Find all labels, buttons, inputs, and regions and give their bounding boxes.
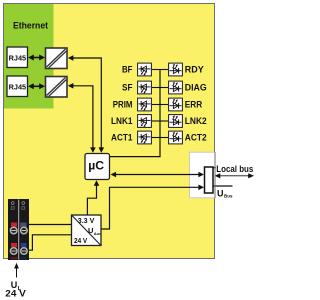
wire terminal to power supply (0V) (29, 235, 71, 250)
label U_Bus (217, 189, 233, 199)
wire LED row ACT1/ACT2 (152, 137, 168, 139)
module body (yellow block) (4, 4, 215, 259)
wire 3.3V from power supply to uC (87, 180, 99, 214)
svg-text:Aux: Aux (94, 231, 102, 236)
svg-text:24 V: 24 V (5, 288, 26, 298)
arrow U_L supply input (14, 263, 19, 278)
label U_L (11, 280, 22, 292)
white panel behind Local bus (190, 152, 216, 198)
svg-text:LNK1: LNK1 (111, 116, 133, 126)
svg-text:BF: BF (122, 65, 133, 75)
LED DIAG (169, 81, 183, 94)
Ethernet section (green block) (4, 4, 54, 109)
svg-text:Local bus: Local bus (216, 164, 253, 174)
Local bus double arrow (215, 173, 255, 178)
local bus interface box (205, 167, 214, 193)
svg-text:RJ45: RJ45 (9, 54, 27, 63)
wire uC to local bus interface (arrows both ends) (111, 172, 205, 178)
wire RJ45 X2 to transformer T2 (double arrow) (28, 83, 45, 89)
connector X1 RJ45 (7, 47, 28, 68)
svg-text:µC: µC (88, 158, 104, 172)
svg-text:DIAG: DIAG (185, 83, 207, 93)
LED bus wire (vertical, to uC right side) (110, 70, 160, 157)
svg-text:ACT1: ACT1 (111, 133, 133, 143)
LED LNK2 (169, 115, 183, 128)
svg-text:SF: SF (122, 83, 133, 93)
svg-text:PRIM: PRIM (113, 100, 133, 110)
page background (0, 0, 256, 300)
svg-text:24 V: 24 V (74, 236, 87, 245)
wire terminal to power supply (+24V) (29, 224, 71, 226)
wire LED row LNK1/LNK2 (152, 120, 168, 122)
LED ACT2 (169, 131, 183, 144)
svg-text:ACT2: ACT2 (185, 133, 207, 143)
svg-text:LNK2: LNK2 (185, 116, 207, 126)
wire LED row SF/DIAG (152, 87, 168, 89)
wire U_aux from power supply to local bus interface (102, 185, 205, 230)
svg-text:U: U (217, 189, 224, 199)
LED ERR (169, 98, 183, 111)
wire RJ45 X1 to transformer T1 (double arrow) (28, 55, 45, 61)
wire transformer T2 to uC (with arrowheads) (68, 83, 96, 153)
power supply U2 (DC/DC converter) (72, 215, 103, 246)
module right border over white panel (214, 152, 216, 198)
wire transformer T1 to uC (with arrowheads) (68, 55, 104, 153)
wire stub from interface top to module edge (213, 167, 216, 169)
connector X2 RJ45 (7, 76, 28, 97)
svg-text:Bus: Bus (224, 194, 233, 199)
svg-text:U: U (88, 226, 93, 235)
LED BF (138, 63, 152, 76)
wire U_Bus out (right of interface) (213, 185, 233, 187)
LED PRIM (138, 98, 152, 111)
transformer T1 (isolation) (46, 48, 68, 69)
svg-text:Ethernet: Ethernet (13, 20, 48, 31)
svg-text:ERR: ERR (185, 100, 203, 110)
LED RDY (169, 63, 183, 76)
svg-text:3.3 V: 3.3 V (78, 216, 95, 225)
microcontroller U1 (85, 154, 110, 180)
terminal block X3 (24V supply) (8, 199, 29, 260)
transformer T2 (isolation) (46, 77, 68, 98)
LED ACT1 (138, 131, 152, 144)
LED SF (138, 81, 152, 94)
svg-text:RJ45: RJ45 (9, 83, 27, 92)
LED LNK1 (138, 115, 152, 128)
svg-text:RDY: RDY (185, 65, 204, 75)
wire LED row BF/RDY (152, 69, 168, 71)
wire LED row PRIM/ERR (152, 104, 168, 106)
